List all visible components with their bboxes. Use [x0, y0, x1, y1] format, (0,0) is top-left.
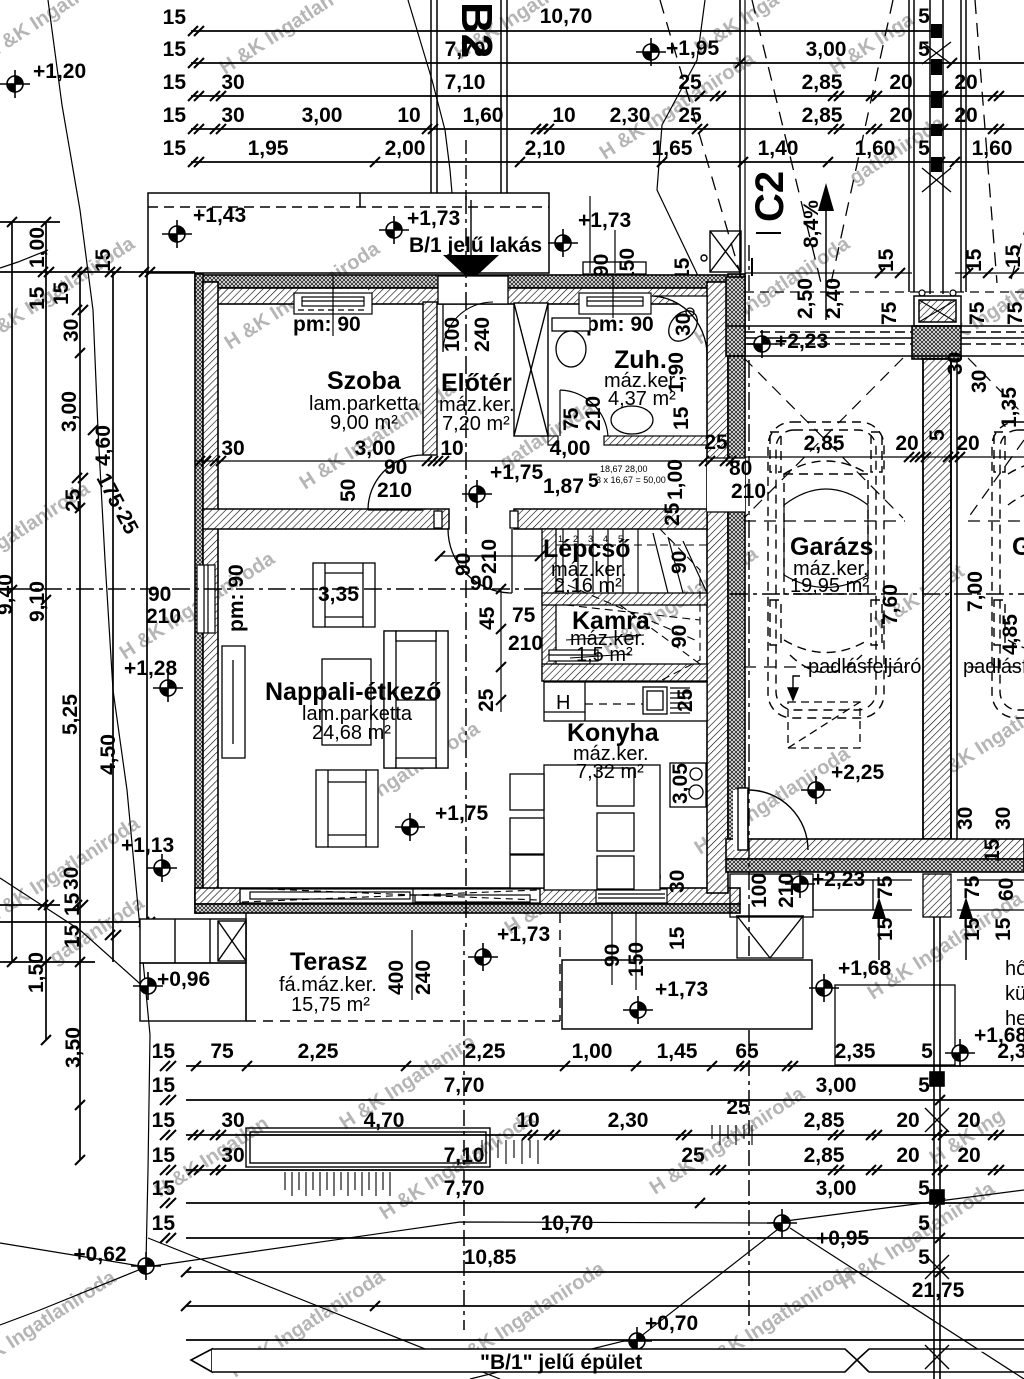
top-right ticks row y273 — [745, 272, 1024, 274]
svg-text:2,40: 2,40 — [822, 278, 845, 319]
svg-text:+2,23: +2,23 — [775, 330, 828, 353]
svg-text:25: 25 — [475, 688, 498, 712]
svg-text:15: 15 — [26, 286, 49, 310]
svg-text:1,60: 1,60 — [972, 137, 1013, 160]
svg-text:15: 15 — [92, 248, 115, 272]
+1,75 corridor — [462, 480, 492, 508]
svg-text:20: 20 — [895, 432, 918, 455]
svg-text:45: 45 — [476, 606, 499, 630]
svg-text:60: 60 — [995, 878, 1018, 901]
svg-text:15: 15 — [163, 6, 187, 29]
window zuh top — [579, 276, 651, 318]
dashed line above garage front — [730, 291, 1024, 293]
svg-text:1,95: 1,95 — [248, 137, 289, 160]
corner shower — [652, 296, 707, 360]
boundary segment to +0,96 — [0, 878, 147, 990]
entrance triangle — [443, 255, 499, 281]
dim row 4 — [191, 128, 1024, 130]
svg-text:15: 15 — [981, 838, 1004, 862]
svg-text:30: 30 — [221, 71, 244, 94]
svg-text:240: 240 — [412, 960, 435, 995]
garage door swing X — [744, 358, 905, 667]
svg-text:75: 75 — [878, 301, 901, 325]
middle wall right segment — [514, 509, 707, 529]
svg-text:210: 210 — [508, 632, 543, 655]
svg-text:25: 25 — [704, 431, 728, 454]
+1,73 terasz — [468, 943, 498, 971]
svg-text:G: G — [1012, 533, 1024, 561]
svg-text:+1,75: +1,75 — [490, 461, 543, 484]
svg-text:2,10: 2,10 — [525, 137, 566, 160]
svg-text:3,00: 3,00 — [58, 391, 81, 432]
svg-text:5: 5 — [918, 1177, 930, 1200]
svg-text:+2,25: +2,25 — [831, 761, 884, 784]
svg-text:20: 20 — [957, 1109, 980, 1132]
svg-text:5: 5 — [918, 5, 930, 28]
svg-text:2,25: 2,25 — [465, 1040, 506, 1063]
svg-text:15: 15 — [961, 917, 984, 941]
terasz retaining wall 4,70 — [246, 1128, 490, 1167]
svg-text:25: 25 — [726, 1096, 750, 1119]
garage front piers — [726, 277, 745, 356]
boundary corner fan at +0,62 — [0, 1267, 146, 1325]
svg-text:4,00: 4,00 — [550, 437, 591, 460]
back steps structure — [737, 916, 803, 958]
dim row 2 — [191, 62, 1024, 64]
svg-text:+1,73: +1,73 — [407, 207, 460, 230]
svg-text:2,85: 2,85 — [804, 1144, 845, 1167]
nappali furniture: armchair top — [313, 563, 375, 627]
top wall — [195, 275, 740, 304]
svg-text:8,4%: 8,4% — [800, 200, 823, 248]
driveway splay dashed lines garage1 — [660, 0, 1024, 283]
svg-text:5: 5 — [918, 1212, 930, 1235]
svg-text:15: 15 — [152, 1074, 176, 1097]
bottom wall — [195, 888, 740, 913]
fence line bottom continuation — [925, 917, 949, 1379]
svg-text:3,35: 3,35 — [318, 583, 359, 606]
below garage: +2,23 row — [785, 870, 815, 898]
svg-text:4,50: 4,50 — [97, 734, 120, 775]
svg-text:10: 10 — [516, 1109, 539, 1132]
svg-text:10,85: 10,85 — [464, 1246, 517, 1269]
wall szoba/eloter — [423, 302, 437, 455]
svg-text:75: 75 — [961, 875, 984, 899]
svg-text:H: H — [556, 692, 570, 714]
dash-dot axes — [12, 196, 545, 930]
svg-text:15: 15 — [61, 924, 84, 948]
svg-text:1,45: 1,45 — [657, 1040, 698, 1063]
svg-text:25: 25 — [674, 688, 697, 712]
left dims — [0, 204, 246, 1165]
kitchen counter — [544, 682, 707, 721]
svg-text:30: 30 — [221, 437, 244, 460]
svg-text:15,75 m²: 15,75 m² — [291, 994, 370, 1016]
svg-text:7,00: 7,00 — [964, 571, 987, 612]
step boxes below garage — [730, 874, 1024, 917]
svg-text:7,20 m²: 7,20 m² — [442, 413, 510, 435]
svg-text:hő: hő — [1005, 958, 1024, 980]
svg-text:400: 400 — [385, 960, 408, 995]
svg-text:2,3: 2,3 — [997, 1040, 1024, 1063]
zuh door 75/210 — [560, 390, 608, 436]
svg-text:5,25: 5,25 — [59, 694, 82, 735]
svg-text:2,85: 2,85 — [802, 104, 843, 127]
svg-text:15: 15 — [152, 1109, 176, 1132]
svg-text:3,00: 3,00 — [816, 1177, 857, 1200]
svg-text:20: 20 — [957, 1144, 980, 1167]
svg-text:2,30: 2,30 — [610, 104, 651, 127]
svg-text:21,75: 21,75 — [912, 1279, 965, 1302]
svg-text:10,70: 10,70 — [540, 5, 593, 28]
svg-text:25: 25 — [681, 1144, 705, 1167]
dim row 3 — [191, 95, 1024, 97]
svg-text:Előtér: Előtér — [441, 369, 512, 397]
svg-text:2,35: 2,35 — [835, 1040, 876, 1063]
svg-text:75: 75 — [966, 301, 989, 325]
svg-text:90: 90 — [470, 572, 493, 595]
stairs — [563, 529, 707, 593]
couch — [384, 631, 448, 768]
garage back wall — [726, 839, 1024, 872]
svg-text:15: 15 — [61, 892, 84, 916]
front walkway slab — [562, 960, 812, 1029]
svg-text:+1,73: +1,73 — [655, 978, 708, 1001]
svg-text:10: 10 — [397, 104, 420, 127]
lepcso left partition — [542, 529, 556, 681]
svg-text:2,16 m²: 2,16 m² — [554, 575, 622, 597]
level marker +1,43 — [162, 220, 192, 248]
svg-text:+1,68: +1,68 — [838, 957, 891, 980]
bottom dims — [152, 917, 1024, 1379]
svg-text:20: 20 — [956, 432, 979, 455]
level marker +1,73 porch — [379, 216, 409, 244]
level marker +0,62 — [131, 1252, 161, 1280]
svg-text:padlásfeljáró: padlásfeljáró — [808, 656, 921, 678]
svg-text:B/1 jelű lakás: B/1 jelű lakás — [409, 234, 542, 257]
svg-text:fá.máz.ker.: fá.máz.ker. — [279, 974, 377, 996]
svg-text:pm: 90: pm: 90 — [586, 313, 654, 336]
armchair bottom — [316, 770, 378, 847]
svg-text:1,60: 1,60 — [463, 104, 504, 127]
svg-text:9,10: 9,10 — [26, 581, 49, 622]
terrain tick rows — [285, 1125, 752, 1196]
svg-text:+1,13: +1,13 — [121, 834, 174, 857]
svg-text:50: 50 — [337, 479, 360, 502]
svg-text:75: 75 — [512, 604, 536, 627]
svg-text:1,00: 1,00 — [26, 227, 49, 268]
svg-text:1,50: 1,50 — [25, 952, 48, 993]
terasz boundary — [246, 913, 560, 1021]
middle wall left segment — [203, 509, 449, 529]
svg-text:10: 10 — [552, 104, 575, 127]
front door eloter — [438, 276, 508, 352]
svg-text:30: 30 — [672, 313, 695, 336]
dim row 5 — [191, 161, 1024, 163]
svg-text:1,40: 1,40 — [758, 137, 799, 160]
svg-text:20: 20 — [896, 1109, 919, 1132]
stair tread numbers — [558, 534, 623, 544]
svg-text:4,60: 4,60 — [92, 425, 115, 466]
svg-text:65: 65 — [735, 1040, 759, 1063]
svg-text:1,00: 1,00 — [572, 1040, 613, 1063]
svg-text:30: 30 — [60, 867, 83, 890]
svg-text:3,00: 3,00 — [806, 38, 847, 61]
svg-text:3,05: 3,05 — [669, 763, 692, 804]
svg-text:90: 90 — [590, 254, 613, 277]
sideboard left — [222, 646, 245, 758]
washbasin — [611, 406, 653, 434]
svg-text:15: 15 — [874, 917, 897, 941]
svg-text:2,30: 2,30 — [608, 1109, 649, 1132]
north-west corner line — [0, 250, 48, 268]
garage1 door (sectional) — [726, 326, 1024, 356]
dashdot axis garage — [748, 245, 750, 330]
svg-text:75: 75 — [874, 875, 897, 899]
svg-text:+1,73: +1,73 — [578, 209, 631, 232]
svg-text:3 x 16,67 = 50,00: 3 x 16,67 = 50,00 — [596, 475, 666, 485]
svg-text:15: 15 — [152, 1212, 176, 1235]
svg-text:25: 25 — [678, 104, 702, 127]
level marker +1,20 — [0, 70, 30, 98]
+1,75 nappali — [395, 813, 425, 841]
zuh bottom partition — [548, 436, 558, 445]
konyha window bottom — [596, 889, 667, 903]
svg-text:+1,75: +1,75 — [435, 802, 488, 825]
left wall — [195, 274, 218, 913]
svg-text:4,37 m²: 4,37 m² — [608, 388, 676, 410]
toilet — [552, 318, 590, 367]
svg-text:15: 15 — [152, 1177, 176, 1200]
party wall between garages — [923, 359, 951, 839]
svg-text:25: 25 — [62, 488, 85, 512]
level marker +0,70 — [622, 1327, 652, 1355]
svg-text:1,65: 1,65 — [652, 137, 693, 160]
svg-text:pm: 90: pm: 90 — [293, 313, 361, 336]
svg-text:kü: kü — [1005, 983, 1024, 1005]
svg-text:90: 90 — [668, 625, 691, 648]
svg-text:+0,96: +0,96 — [157, 968, 210, 991]
svg-text:30: 30 — [221, 104, 244, 127]
garage — [660, 0, 1024, 1067]
svg-text:+0,62: +0,62 — [73, 1243, 126, 1266]
entrance steps — [583, 262, 646, 308]
garage1 car — [768, 422, 884, 718]
level marker +0,95 — [767, 1209, 797, 1237]
svg-text:15: 15 — [50, 281, 73, 305]
svg-text:15: 15 — [963, 248, 986, 272]
ramp arrow — [818, 183, 834, 211]
svg-text:20: 20 — [896, 1144, 919, 1167]
svg-text:C2: C2 — [748, 171, 792, 222]
svg-text:100: 100 — [441, 317, 464, 352]
svg-text:210: 210 — [478, 539, 501, 574]
svg-text:2,85: 2,85 — [804, 432, 845, 455]
svg-text:9,40: 9,40 — [0, 574, 17, 615]
window szoba top — [294, 276, 372, 336]
svg-text:10: 10 — [440, 437, 463, 460]
svg-text:90: 90 — [384, 456, 407, 479]
garage2 left edge — [950, 359, 952, 839]
svg-text:9,00 m²: 9,00 m² — [330, 412, 398, 434]
terasz slider opening — [240, 889, 540, 903]
dim row 1 — [191, 30, 937, 32]
svg-text:25: 25 — [661, 502, 684, 526]
svg-text:5: 5 — [921, 1040, 933, 1063]
porch corner brace — [701, 231, 741, 272]
svg-text:30: 30 — [221, 1144, 244, 1167]
svg-text:75: 75 — [560, 407, 583, 431]
level marker +1,95 — [636, 38, 666, 66]
B2 corridor walls — [431, 0, 507, 193]
svg-text:30: 30 — [954, 807, 977, 830]
svg-text:1,5 m²: 1,5 m² — [576, 644, 633, 666]
kamra shelf — [549, 650, 598, 661]
svg-text:Garázs: Garázs — [790, 533, 873, 561]
level marker +1,28 — [153, 674, 183, 702]
svg-text:15: 15 — [152, 1144, 176, 1167]
svg-text:5: 5 — [918, 137, 930, 160]
coffee table — [322, 659, 371, 745]
svg-text:3,00: 3,00 — [302, 104, 343, 127]
svg-text:pm: 90: pm: 90 — [225, 564, 248, 632]
svg-text:210: 210 — [582, 396, 605, 431]
level marker +0,96 — [133, 972, 163, 1000]
garage west boundary top — [739, 0, 741, 326]
bottom building bar B/1 — [191, 1349, 1024, 1372]
+2,25 — [801, 776, 831, 804]
right wall — [707, 274, 745, 893]
svg-text:2,85: 2,85 — [804, 1109, 845, 1132]
svg-text:3,00: 3,00 — [816, 1074, 857, 1097]
svg-text:15: 15 — [163, 104, 187, 127]
svg-text:15: 15 — [875, 248, 898, 272]
svg-text:3,50: 3,50 — [62, 1027, 85, 1068]
cooktop — [670, 763, 706, 807]
svg-text:30: 30 — [666, 870, 689, 893]
svg-text:4,85: 4,85 — [999, 614, 1022, 655]
svg-text:15: 15 — [163, 137, 187, 160]
svg-text:Terasz: Terasz — [290, 948, 367, 976]
svg-text:2,25: 2,25 — [298, 1040, 339, 1063]
garage2 car partial — [992, 422, 1024, 718]
svg-text:15: 15 — [1002, 244, 1024, 268]
svg-text:30: 30 — [221, 1109, 244, 1132]
terasz step cells — [140, 919, 246, 1021]
long vertical dashdot lines — [464, 930, 749, 1330]
svg-text:210: 210 — [377, 479, 412, 502]
fence strip between driveways — [909, 0, 966, 294]
door house->garage — [733, 788, 808, 850]
plot boundary west — [48, 0, 150, 1262]
top curvy line to porch — [408, 0, 452, 193]
svg-text:75: 75 — [210, 1040, 234, 1063]
svg-text:30: 30 — [60, 319, 83, 342]
svg-text:Nappali-étkező: Nappali-étkező — [265, 678, 441, 706]
svg-text:240: 240 — [471, 317, 494, 352]
svg-text:15: 15 — [666, 926, 689, 950]
nappali door from corridor — [434, 511, 540, 593]
svg-text:1,00: 1,00 — [664, 459, 687, 500]
house — [12, 193, 812, 1029]
szoba door 90/210 — [368, 455, 423, 510]
porch slab — [148, 193, 549, 273]
svg-text:15: 15 — [992, 917, 1015, 941]
svg-text:B2: B2 — [452, 2, 501, 58]
svg-text:210: 210 — [146, 605, 181, 628]
svg-text:210: 210 — [775, 873, 798, 908]
svg-text:30: 30 — [992, 807, 1015, 830]
svg-text:100: 100 — [748, 873, 771, 908]
svg-text:15: 15 — [163, 38, 187, 61]
svg-text:+1,73: +1,73 — [497, 923, 550, 946]
svg-text:90: 90 — [668, 551, 691, 574]
svg-text:1,87: 1,87 — [543, 475, 584, 498]
dining table — [510, 765, 660, 890]
garage dim 2,85 — [745, 456, 1024, 458]
svg-text:15: 15 — [163, 71, 187, 94]
svg-text:5: 5 — [918, 38, 930, 61]
svg-text:+1,28: +1,28 — [124, 657, 177, 680]
svg-text:2,00: 2,00 — [385, 137, 426, 160]
svg-text:5: 5 — [918, 1074, 930, 1097]
svg-text:Szoba: Szoba — [327, 367, 402, 395]
svg-text:15: 15 — [152, 1040, 176, 1063]
svg-text:+0,70: +0,70 — [645, 1312, 698, 1335]
kamra bottom wall — [542, 664, 707, 681]
svg-text:2,85: 2,85 — [802, 71, 843, 94]
svg-text:2,50: 2,50 — [794, 278, 817, 319]
svg-text:75: 75 — [1004, 301, 1024, 325]
svg-text:18,67 28,00: 18,67 28,00 — [600, 464, 648, 474]
level marker +1,73 right of porch — [548, 229, 578, 257]
+1,68 — [809, 974, 839, 1002]
svg-text:90: 90 — [148, 583, 171, 606]
top dims — [163, 0, 1024, 200]
dashdot centerline garage — [730, 593, 1024, 595]
svg-text:7,10: 7,10 — [445, 71, 486, 94]
window left wall — [197, 565, 215, 633]
zuh left partition / wardrobe X-box — [514, 303, 548, 436]
door corridor->garage 80/210 — [707, 458, 745, 512]
svg-text:+1,20: +1,20 — [33, 60, 86, 83]
svg-text:24,68 m²: 24,68 m² — [312, 722, 391, 744]
level marker +1,13 — [147, 854, 177, 882]
descending line through +0,70 — [470, 1226, 782, 1379]
svg-text:7,32 m²: 7,32 m² — [576, 761, 644, 783]
svg-text:30: 30 — [968, 370, 991, 393]
entry walk dims top — [589, 196, 591, 273]
line from +1,95 down — [657, 0, 707, 300]
svg-text:"B/1" jelű épület: "B/1" jelű épület — [480, 1351, 642, 1374]
gate structure between garage doors — [914, 290, 961, 326]
svg-text:10,70: 10,70 — [541, 1212, 594, 1235]
lepcso/kamra wall — [542, 593, 707, 605]
svg-text:7,60: 7,60 — [879, 584, 902, 625]
svg-text:30: 30 — [944, 352, 967, 375]
svg-text:5: 5 — [926, 429, 949, 441]
